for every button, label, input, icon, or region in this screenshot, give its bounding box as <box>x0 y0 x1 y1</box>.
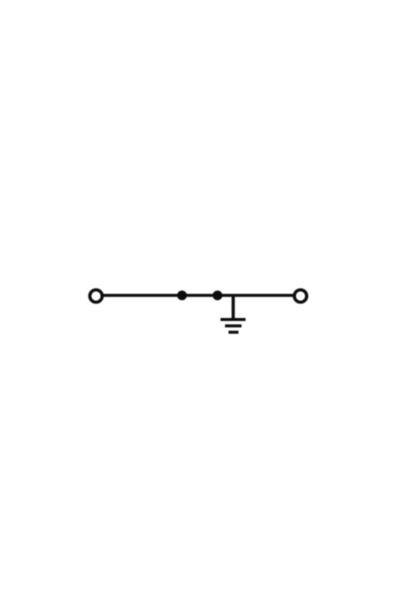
terminal circle left <box>90 290 102 302</box>
wire main horizontal <box>103 294 294 297</box>
wire vertical to ground <box>232 295 235 319</box>
node junction dot 2 <box>213 291 223 301</box>
terminal circle right <box>294 290 306 302</box>
node junction dot 1 <box>177 291 187 301</box>
ground <box>221 320 246 333</box>
